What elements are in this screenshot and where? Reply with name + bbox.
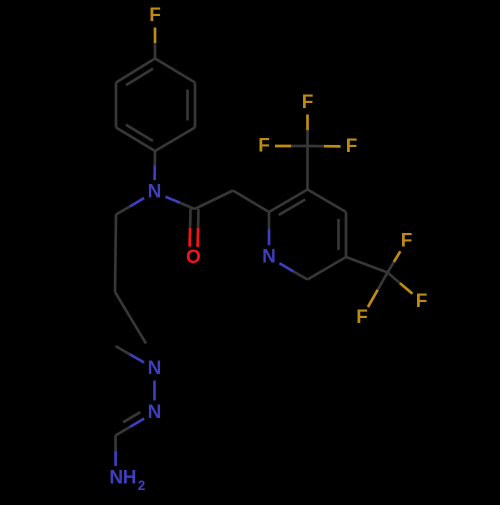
svg-text:F: F xyxy=(356,307,368,328)
svg-text:H: H xyxy=(123,468,137,489)
svg-text:2: 2 xyxy=(138,478,146,493)
svg-text:O: O xyxy=(186,247,201,268)
svg-text:N: N xyxy=(148,402,162,423)
svg-text:F: F xyxy=(258,136,270,157)
svg-text:N: N xyxy=(262,247,276,268)
svg-text:N: N xyxy=(148,182,162,203)
svg-text:N: N xyxy=(109,468,123,489)
svg-text:N: N xyxy=(148,358,162,379)
svg-text:F: F xyxy=(302,92,314,113)
svg-text:F: F xyxy=(401,231,413,252)
svg-text:F: F xyxy=(416,291,428,312)
svg-text:F: F xyxy=(149,5,161,26)
svg-text:F: F xyxy=(346,136,358,157)
